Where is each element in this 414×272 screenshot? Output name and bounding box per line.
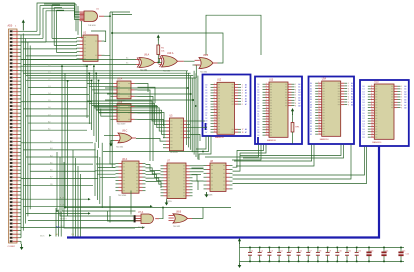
svg-text:A7: A7 xyxy=(351,101,353,104)
wire gates bundle xyxy=(65,196,203,221)
svg-text:17: 17 xyxy=(242,129,244,131)
label cap value xyxy=(406,254,409,256)
resistor RP1 xyxy=(291,108,294,144)
label U10A xyxy=(163,52,174,73)
IC U5 xyxy=(163,118,190,151)
label C3 xyxy=(270,250,272,252)
svg-text:12: 12 xyxy=(266,112,268,114)
wire U2 output loop xyxy=(91,12,132,167)
svg-text:5: 5 xyxy=(242,96,243,98)
svg-text:74LS32: 74LS32 xyxy=(200,72,208,74)
svg-text:C7: C7 xyxy=(309,250,311,252)
svg-text:A8: A8 xyxy=(404,106,406,109)
svg-text:9: 9 xyxy=(401,107,402,109)
svg-text:C14: C14 xyxy=(385,250,388,252)
svg-text:4: 4 xyxy=(348,91,349,93)
svg-text:A6: A6 xyxy=(351,98,353,101)
wire G2 to G3 xyxy=(159,58,163,62)
svg-text:18: 18 xyxy=(319,127,321,129)
svg-text:D6: D6 xyxy=(205,101,207,103)
svg-text:7: 7 xyxy=(214,100,215,102)
svg-text:U9:C: U9:C xyxy=(122,131,128,133)
svg-text:10: 10 xyxy=(371,109,373,111)
svg-text:A6: A6 xyxy=(245,100,247,103)
capacitor C1 xyxy=(248,247,252,263)
wire bundle B (mid verticals) xyxy=(86,65,99,148)
svg-text:C10: C10 xyxy=(338,250,341,252)
svg-text:C11: C11 xyxy=(348,250,351,252)
OR gate U9:C xyxy=(115,133,137,143)
svg-text:5: 5 xyxy=(295,95,296,97)
label C14 xyxy=(385,250,388,252)
svg-text:U6:A: U6:A xyxy=(122,158,128,161)
capacitor C11 xyxy=(345,247,349,263)
ground (U7) xyxy=(165,199,169,206)
svg-text:2: 2 xyxy=(242,87,243,89)
wire bundle D (to boxes) xyxy=(105,87,197,107)
svg-text:U14: U14 xyxy=(322,78,327,80)
svg-text:A4: A4 xyxy=(245,95,247,98)
svg-text:2: 2 xyxy=(214,86,215,88)
wire bundle C xyxy=(95,143,102,208)
svg-text:18: 18 xyxy=(214,131,216,133)
wire verticals left field xyxy=(61,65,107,216)
svg-text:6: 6 xyxy=(214,97,215,99)
label C10 xyxy=(338,250,341,252)
label U13 xyxy=(267,79,277,142)
svg-text:A1: A1 xyxy=(404,88,406,91)
capacitor C12 xyxy=(355,247,359,263)
svg-text:19: 19 xyxy=(266,131,268,133)
wire U6 web xyxy=(95,164,116,178)
IC U13 (display driver) xyxy=(257,82,300,137)
wire U8 right xyxy=(233,145,352,179)
svg-text:15: 15 xyxy=(371,122,373,124)
svg-text:D2: D2 xyxy=(205,90,207,92)
label C2 xyxy=(261,250,263,252)
svg-text:RP1: RP1 xyxy=(295,127,300,129)
svg-text:A4: A4 xyxy=(404,96,406,99)
XOR gate U9:A xyxy=(136,58,159,68)
svg-text:4: 4 xyxy=(214,92,215,94)
ground (U9:C input) xyxy=(109,140,114,146)
svg-text:U7: U7 xyxy=(167,161,171,163)
svg-text:18: 18 xyxy=(242,132,244,134)
svg-text:74LS244: 74LS244 xyxy=(118,195,127,197)
svg-text:BUS: BUS xyxy=(40,235,45,237)
svg-text:2: 2 xyxy=(401,89,402,91)
svg-text:6: 6 xyxy=(348,96,349,98)
svg-text:1: 1 xyxy=(295,84,296,86)
resistor R1 xyxy=(157,35,160,64)
svg-text:9: 9 xyxy=(266,104,267,106)
svg-text:19: 19 xyxy=(371,133,373,135)
AND gate U1A xyxy=(80,11,105,22)
svg-text:D2: D2 xyxy=(205,118,207,120)
svg-text:A0: A0 xyxy=(298,83,300,86)
svg-text:74LS30: 74LS30 xyxy=(88,25,96,27)
svg-text:14: 14 xyxy=(266,118,268,120)
label C5 xyxy=(290,250,292,252)
label U11A xyxy=(138,211,146,229)
XOR gate U10:A xyxy=(159,56,184,68)
label U3 xyxy=(117,78,126,103)
svg-text:18: 18 xyxy=(371,130,373,132)
svg-text:12: 12 xyxy=(371,114,373,116)
svg-text:2: 2 xyxy=(371,88,372,90)
svg-text:17: 17 xyxy=(266,126,268,128)
label RP1 xyxy=(295,127,300,129)
svg-text:7: 7 xyxy=(348,99,349,101)
svg-text:D3: D3 xyxy=(205,93,207,95)
svg-text:A7: A7 xyxy=(245,131,247,134)
svg-text:IOW: IOW xyxy=(60,205,64,207)
label J1 xyxy=(8,25,18,248)
svg-text:A6: A6 xyxy=(245,128,247,131)
capacitor C5 xyxy=(287,247,291,263)
power flag VCC xyxy=(22,20,25,31)
svg-text:10k: 10k xyxy=(161,51,164,53)
svg-text:6: 6 xyxy=(295,97,296,99)
svg-text:D3: D3 xyxy=(205,121,207,123)
svg-text:C4: C4 xyxy=(280,250,282,252)
wire to U5 inputs xyxy=(87,101,164,141)
svg-text:17: 17 xyxy=(214,128,216,130)
bus wire (main) xyxy=(67,146,379,238)
svg-text:A7: A7 xyxy=(404,104,406,107)
label C15 xyxy=(402,250,405,252)
svg-text:C6: C6 xyxy=(300,250,302,252)
svg-text:U2: U2 xyxy=(83,32,87,35)
svg-text:A5: A5 xyxy=(404,98,406,101)
svg-text:D8: D8 xyxy=(205,107,207,109)
svg-text:U13: U13 xyxy=(269,79,274,81)
svg-text:4: 4 xyxy=(401,94,402,96)
svg-text:MAN6910: MAN6910 xyxy=(372,141,382,144)
svg-text:A5: A5 xyxy=(245,97,247,100)
svg-text:D1: D1 xyxy=(205,115,207,117)
svg-text:U9:B: U9:B xyxy=(203,55,209,57)
svg-text:13: 13 xyxy=(266,115,268,117)
svg-text:A3: A3 xyxy=(351,90,353,93)
svg-text:9: 9 xyxy=(295,105,296,107)
label C13 xyxy=(370,250,373,252)
svg-text:U12: U12 xyxy=(217,80,222,82)
label U4 xyxy=(117,102,126,126)
svg-text:6: 6 xyxy=(371,98,372,100)
svg-text:13: 13 xyxy=(319,114,321,116)
bus frame box 3 xyxy=(309,77,355,145)
svg-text:9: 9 xyxy=(371,106,372,108)
wire connector to U2 xyxy=(21,42,77,60)
label U11B xyxy=(173,212,182,228)
svg-text:A1: A1 xyxy=(351,85,353,88)
label U7 xyxy=(167,161,172,204)
label C12 xyxy=(358,250,361,252)
svg-text:10: 10 xyxy=(214,108,216,110)
svg-text:20: 20 xyxy=(319,133,321,135)
capacitor C2 xyxy=(258,247,262,263)
label C7 xyxy=(309,250,311,252)
wire top-left web to U1A inputs xyxy=(21,3,80,42)
wire U3 out xyxy=(138,84,156,162)
capacitor C13 xyxy=(366,247,371,263)
capacitor C15 xyxy=(398,247,403,263)
svg-text:13: 13 xyxy=(214,117,216,119)
svg-text:C9: C9 xyxy=(329,250,331,252)
wire net loop (top right) xyxy=(206,15,261,55)
label U14 xyxy=(320,78,330,141)
svg-text:8: 8 xyxy=(371,104,372,106)
label C8 xyxy=(319,250,321,252)
svg-text:A4: A4 xyxy=(298,94,300,97)
svg-text:19: 19 xyxy=(319,130,321,132)
svg-text:11: 11 xyxy=(266,110,268,112)
svg-text:U5: U5 xyxy=(170,116,174,118)
wire box1 exits xyxy=(103,136,211,160)
svg-text:14: 14 xyxy=(371,120,373,122)
svg-text:A6: A6 xyxy=(404,101,406,104)
power rail (cap bank) xyxy=(238,238,404,263)
bus frame notch box1 xyxy=(205,123,207,130)
svg-text:C5: C5 xyxy=(290,250,292,252)
svg-text:D5: D5 xyxy=(205,98,207,100)
wire U7 to U8 xyxy=(193,166,204,181)
svg-text:2: 2 xyxy=(266,86,267,88)
svg-text:14: 14 xyxy=(319,117,321,119)
svg-text:A7: A7 xyxy=(245,103,247,106)
bus frame box 1 xyxy=(203,75,251,137)
svg-text:4: 4 xyxy=(295,92,296,94)
label C11 xyxy=(348,250,351,252)
IC U2 xyxy=(77,35,105,61)
label U9A xyxy=(140,54,150,72)
capacitor C8 xyxy=(316,247,320,263)
svg-text:74LS139: 74LS139 xyxy=(117,124,126,126)
svg-text:1: 1 xyxy=(371,85,372,87)
svg-text:C15: C15 xyxy=(406,254,409,256)
svg-text:17: 17 xyxy=(371,128,373,130)
ground (below J1) xyxy=(20,241,24,250)
svg-text:1: 1 xyxy=(401,86,402,88)
svg-text:7: 7 xyxy=(295,100,296,102)
svg-text:A1: A1 xyxy=(298,86,300,89)
svg-text:A5: A5 xyxy=(351,95,353,98)
svg-text:3: 3 xyxy=(295,89,296,91)
svg-text:1: 1 xyxy=(242,84,243,86)
wire U7 right xyxy=(192,168,204,190)
svg-text:A4: A4 xyxy=(351,93,353,96)
svg-text:11: 11 xyxy=(319,109,321,111)
svg-text:18: 18 xyxy=(266,128,268,130)
svg-text:D1: D1 xyxy=(205,87,207,89)
svg-text:A7: A7 xyxy=(298,102,300,105)
svg-text:5: 5 xyxy=(371,96,372,98)
svg-text:7: 7 xyxy=(401,102,402,104)
svg-text:14: 14 xyxy=(214,120,216,122)
svg-text:8: 8 xyxy=(348,102,349,104)
IC U8 xyxy=(204,163,233,191)
svg-text:5: 5 xyxy=(348,94,349,96)
label C9 xyxy=(329,250,331,252)
svg-text:D0: D0 xyxy=(72,234,74,236)
svg-text:8: 8 xyxy=(401,105,402,107)
svg-text:4: 4 xyxy=(266,91,267,93)
capacitor C10 xyxy=(335,247,339,263)
svg-text:7: 7 xyxy=(371,101,372,103)
capacitor C4 xyxy=(277,247,281,263)
label U8 xyxy=(204,161,214,197)
svg-text:20: 20 xyxy=(266,134,268,136)
svg-text:C13: C13 xyxy=(370,250,373,252)
ground (U8) xyxy=(205,192,209,198)
wire rows address (lower) xyxy=(21,140,98,186)
connector J1 (62-pin edge connector) xyxy=(9,29,22,243)
svg-text:A6: A6 xyxy=(298,99,300,102)
svg-text:U8: U8 xyxy=(210,161,214,163)
svg-text:A2: A2 xyxy=(245,89,247,92)
svg-text:3: 3 xyxy=(401,91,402,93)
svg-text:U1: U1 xyxy=(96,8,100,10)
svg-text:U3:A: U3:A xyxy=(117,78,123,81)
svg-text:7: 7 xyxy=(266,99,267,101)
capacitor C9 xyxy=(326,247,330,263)
svg-text:1: 1 xyxy=(266,83,267,85)
terminal pad (U11:A input) xyxy=(134,215,136,222)
svg-text:5: 5 xyxy=(214,94,215,96)
svg-text:D9: D9 xyxy=(310,134,312,136)
svg-text:17: 17 xyxy=(319,125,321,127)
svg-text:D9: D9 xyxy=(363,137,365,139)
wire U11A out xyxy=(159,207,164,219)
svg-text:AD0: AD0 xyxy=(8,25,13,28)
svg-text:C12: C12 xyxy=(358,250,361,252)
svg-text:IOR: IOR xyxy=(60,212,64,214)
svg-text:15: 15 xyxy=(214,122,216,124)
svg-text:16: 16 xyxy=(266,123,268,125)
label U6 xyxy=(118,158,128,197)
label U12 xyxy=(215,80,225,139)
capacitor C14 xyxy=(381,247,386,263)
svg-text:8: 8 xyxy=(295,103,296,105)
svg-text:C1: C1 xyxy=(251,250,253,252)
svg-text:16: 16 xyxy=(214,125,216,127)
svg-text:15: 15 xyxy=(319,119,321,121)
svg-text:3: 3 xyxy=(242,90,243,92)
svg-text:U7:A: U7:A xyxy=(138,211,144,214)
OR gate U9:B xyxy=(195,58,218,69)
svg-text:74LS32: 74LS32 xyxy=(173,226,181,228)
bus frame box 2 xyxy=(255,77,302,145)
svg-text:C8: C8 xyxy=(319,250,321,252)
svg-text:2: 2 xyxy=(348,86,349,88)
svg-text:12: 12 xyxy=(214,114,216,116)
svg-text:A2: A2 xyxy=(404,90,406,93)
svg-text:A3: A3 xyxy=(298,91,300,94)
svg-text:A2: A2 xyxy=(298,88,300,91)
svg-text:D4: D4 xyxy=(205,96,207,98)
IC U12 (display driver) xyxy=(205,82,247,134)
wire band to display boxes xyxy=(21,71,198,160)
ground (cap bank) xyxy=(238,263,242,268)
label U9B xyxy=(200,55,209,74)
wire U9:C input xyxy=(104,134,115,136)
IC U7 xyxy=(161,163,193,199)
svg-text:U8:B: U8:B xyxy=(176,212,182,214)
capacitor C7 xyxy=(306,247,310,263)
svg-text:A0: A0 xyxy=(404,85,406,88)
svg-text:4: 4 xyxy=(371,93,372,95)
svg-text:7: 7 xyxy=(242,101,243,103)
svg-text:A0: A0 xyxy=(245,83,247,86)
svg-text:8: 8 xyxy=(266,102,267,104)
OR gate U11:B xyxy=(169,214,193,223)
wire U5 right xyxy=(190,121,207,141)
svg-text:8: 8 xyxy=(242,104,243,106)
svg-text:6: 6 xyxy=(266,96,267,98)
svg-text:3: 3 xyxy=(348,88,349,90)
svg-text:A2: A2 xyxy=(351,87,353,90)
svg-text:6: 6 xyxy=(242,98,243,100)
wire rows XD bus (upper) xyxy=(21,65,92,131)
IC U14 (display driver) xyxy=(310,81,353,136)
svg-text:16: 16 xyxy=(319,122,321,124)
IC U3 xyxy=(111,81,138,99)
svg-text:74LS32: 74LS32 xyxy=(116,147,124,149)
wire U11B out xyxy=(192,208,231,219)
wire bus entries xyxy=(40,150,81,237)
svg-text:3: 3 xyxy=(214,89,215,91)
svg-text:U15: U15 xyxy=(374,81,379,83)
svg-text:A3: A3 xyxy=(245,92,247,95)
svg-text:6: 6 xyxy=(401,99,402,101)
wire to U3/U4 inputs xyxy=(87,84,111,117)
label C1 xyxy=(251,250,253,252)
AND gate U11:A xyxy=(136,214,160,224)
svg-text:3: 3 xyxy=(266,88,267,90)
svg-text:11: 11 xyxy=(214,111,216,113)
svg-text:9: 9 xyxy=(214,106,215,108)
svg-text:20: 20 xyxy=(371,136,373,138)
wire U4 out xyxy=(138,107,164,127)
svg-text:2: 2 xyxy=(295,87,296,89)
svg-text:D7: D7 xyxy=(205,104,207,106)
svg-text:D9: D9 xyxy=(205,110,207,112)
svg-text:8: 8 xyxy=(214,103,215,105)
svg-text:D0: D0 xyxy=(205,84,207,86)
svg-text:A0: A0 xyxy=(351,82,353,85)
wire U1A input verticals xyxy=(44,4,82,38)
svg-text:CON62: CON62 xyxy=(8,246,16,248)
capacitor C6 xyxy=(297,247,301,263)
svg-text:A3: A3 xyxy=(404,93,406,96)
svg-text:MAN6910: MAN6910 xyxy=(215,136,225,139)
svg-text:R1: R1 xyxy=(161,48,165,50)
wire web to U2 inputs xyxy=(52,5,77,52)
svg-text:D9: D9 xyxy=(257,135,259,137)
label U2 xyxy=(83,32,93,67)
svg-text:74LS245: 74LS245 xyxy=(170,152,179,154)
svg-text:11: 11 xyxy=(371,112,373,114)
wire box2 exits xyxy=(205,145,261,160)
svg-text:U9:A: U9:A xyxy=(144,54,150,57)
wire U1A output loop xyxy=(104,15,111,17)
IC U6 xyxy=(116,161,146,193)
svg-text:MAN6910: MAN6910 xyxy=(267,139,277,142)
wire bundle A (verticals at connector) xyxy=(21,34,30,238)
label U1A xyxy=(88,8,100,27)
svg-text:4: 4 xyxy=(242,93,243,95)
